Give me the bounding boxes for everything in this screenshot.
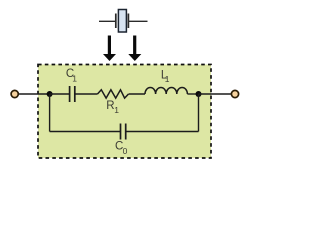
- wire R1 to L1: [129, 93, 145, 95]
- node B: [196, 91, 202, 97]
- label L1: [161, 70, 170, 84]
- equivalent-circuit box: [38, 65, 211, 159]
- svg-text:0: 0: [123, 146, 128, 156]
- svg-text:1: 1: [165, 74, 170, 84]
- svg-text:1: 1: [72, 74, 77, 84]
- node A: [47, 91, 53, 97]
- wire C0 to bottom right: [126, 131, 198, 133]
- inductor L1: [145, 87, 187, 94]
- wire node A to C1: [50, 93, 69, 95]
- resistor R1: [98, 90, 129, 98]
- wire left-terminal to node A: [19, 93, 50, 95]
- terminal left: [11, 90, 18, 97]
- capacitor C0: [121, 124, 126, 140]
- wire node A down: [49, 94, 51, 132]
- label C1: [66, 68, 77, 84]
- label C0: [115, 141, 128, 156]
- wire L1 to node B: [187, 93, 198, 95]
- svg-text:1: 1: [114, 105, 119, 115]
- terminal right: [231, 90, 238, 97]
- wire bottom left to C0: [50, 131, 120, 133]
- capacitor C1: [70, 86, 75, 102]
- label R1: [106, 100, 119, 115]
- wire node B to right terminal: [199, 93, 232, 95]
- arrow right: [128, 36, 141, 62]
- wire C1 to R1: [75, 93, 97, 95]
- wire node B down: [198, 94, 200, 132]
- arrow left: [103, 36, 116, 62]
- crystal Y1: [99, 10, 148, 33]
